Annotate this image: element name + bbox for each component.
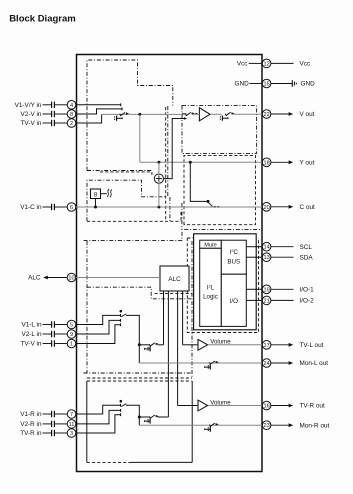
svg-text:5: 5 — [70, 323, 73, 329]
wire ALC sense R — [167, 291, 169, 417]
node C filter tap — [94, 206, 97, 209]
svg-text:TV-R in: TV-R in — [20, 430, 42, 437]
wire pin1 TV-L staircase — [76, 325, 121, 344]
svg-text:V2-V in: V2-V in — [21, 111, 42, 118]
wire I/O to pin 21 — [246, 299, 262, 301]
Y out line/label — [271, 160, 315, 167]
capacitor TV-R in — [43, 430, 68, 436]
Y bus wire to pin 18 — [140, 161, 262, 163]
svg-text:21: 21 — [263, 298, 269, 304]
svg-text:17: 17 — [263, 343, 269, 349]
svg-text:Vcc: Vcc — [300, 61, 311, 68]
volume amp R — [198, 400, 208, 411]
wire V amp to output switch — [210, 113, 222, 115]
wire I2C BUS to pin 14 SCL — [246, 246, 262, 248]
pin 8 V2-V in — [67, 110, 76, 119]
pin 5 V1-L in — [67, 320, 76, 329]
node R selector common — [120, 400, 123, 403]
svg-text:13: 13 — [263, 255, 269, 261]
audio-R section dashed bottom piece — [87, 461, 131, 463]
I2C BUS block — [221, 240, 246, 274]
wire ALC to R volume amp — [178, 405, 198, 407]
audio-R section bottom rail — [131, 461, 192, 463]
node video bus tap — [138, 113, 141, 116]
GND line, ground symbol, label — [271, 80, 315, 88]
Mon-L out line/label — [271, 360, 328, 367]
svg-text:6: 6 — [70, 205, 73, 211]
wire pin 10 to ALC block — [76, 277, 160, 279]
capacitor V1-V/Y in — [43, 102, 68, 108]
switch V amp input — [185, 112, 197, 116]
audio-R section dashed top edge — [87, 380, 192, 382]
volume amp L — [198, 339, 208, 350]
contact tick TV-R — [120, 413, 122, 416]
node L volume tap — [138, 343, 141, 346]
wire ALC sense L — [163, 291, 165, 345]
svg-text:I/O-1: I/O-1 — [300, 287, 315, 294]
svg-text:ALC: ALC — [168, 276, 181, 283]
svg-text:Block Diagram: Block Diagram — [9, 13, 76, 24]
pin 17 TV-L out — [262, 341, 271, 350]
clamp R — [145, 418, 151, 423]
clamp L — [145, 346, 151, 351]
capacitor V2-V in — [43, 111, 68, 117]
Vcc line/label — [271, 61, 311, 68]
capacitor TV-V in — [43, 120, 68, 126]
svg-text:Mute: Mute — [204, 243, 216, 249]
wire ALC feed L amp — [182, 291, 184, 345]
svg-text:V1-V/Y in: V1-V/Y in — [15, 102, 42, 109]
wire contact at V amp switch — [182, 113, 186, 115]
svg-text:11: 11 — [69, 422, 75, 428]
Mon-R out line/label — [271, 422, 330, 429]
svg-text:4: 4 — [70, 103, 73, 109]
audio-L dashed top edge piece — [155, 293, 193, 295]
wire video tap down to Y bus — [139, 114, 141, 162]
Vcc supply line inside — [237, 61, 262, 68]
wire L switch to ALC sense — [158, 344, 164, 346]
wire Y tap to Y/C switch — [190, 162, 208, 201]
I/O-1 line/label — [271, 287, 314, 294]
clamp at V out switch — [220, 116, 228, 121]
op-amp V out buffer — [199, 108, 210, 121]
capacitor V2-L in — [43, 331, 68, 337]
contact tick TV-L — [120, 323, 122, 326]
logic block dashed box top stub — [187, 237, 193, 239]
svg-text:V1-R in: V1-R in — [20, 411, 42, 418]
svg-text:SCL: SCL — [300, 244, 313, 251]
svg-text:15: 15 — [263, 82, 269, 88]
svg-text:I2L: I2L — [207, 284, 215, 292]
svg-text:9: 9 — [70, 332, 73, 338]
wire pin5 V1-L staircase — [76, 315, 121, 324]
node Y tap to adder — [157, 161, 160, 164]
switch L line out — [149, 343, 158, 347]
I/O block — [221, 274, 246, 326]
IC outline box — [77, 55, 263, 472]
svg-text:TV-L out: TV-L out — [300, 342, 324, 349]
ALC block — [160, 266, 189, 291]
wire pin3 TV-R staircase — [76, 415, 121, 433]
capacitor V1-C in — [43, 204, 68, 210]
svg-text:I2C: I2C — [230, 248, 239, 256]
svg-text:20: 20 — [263, 205, 269, 211]
chroma section dashed bottom — [87, 220, 181, 222]
contact tick V2-L — [120, 319, 122, 322]
pin 21 I/O-2 — [262, 296, 271, 305]
video input section box right edge — [167, 106, 169, 197]
I/O-2 line/label — [271, 298, 314, 305]
I2L Logic block — [200, 248, 222, 326]
logic block dashed box — [187, 238, 258, 333]
svg-text:12: 12 — [263, 61, 269, 67]
svg-text:8: 8 — [70, 112, 73, 118]
video bus wire to amp — [102, 113, 183, 115]
SDA line/label — [271, 254, 313, 261]
audio-L section dashed bottom edge — [87, 377, 192, 379]
wire I2C BUS to pin 13 SDA — [246, 256, 262, 258]
contact tick V2-R — [120, 409, 122, 412]
svg-text:Y out: Y out — [300, 160, 315, 167]
pin 19 I/O-1 — [262, 285, 271, 294]
capacitor V2-R in — [43, 421, 68, 427]
switch Mon-L out — [209, 361, 218, 365]
chroma section box (dash-dot) — [87, 180, 166, 221]
audio L selector switch arm — [121, 314, 126, 317]
chroma box inner dash-dot edge — [169, 197, 171, 221]
contact tick V1-L — [120, 314, 122, 317]
wire pin9 V2-L staircase — [76, 320, 121, 334]
node Y tap to Y/C switch — [189, 161, 192, 164]
pin 23 Mon-R out — [262, 421, 271, 430]
wire L to rec switch — [139, 344, 150, 346]
svg-text:C out: C out — [300, 204, 315, 211]
pin 13 SDA — [262, 253, 271, 262]
wire L volume amp to pin 17 — [208, 344, 262, 346]
TV-L out line/label — [271, 342, 324, 349]
pin 9 V2-L in — [67, 330, 76, 339]
wire ALC to L volume amp — [183, 344, 198, 346]
wire switch to V amp — [192, 113, 200, 115]
svg-text:10: 10 — [68, 276, 74, 282]
switch Y/C mix — [208, 202, 219, 207]
GND line inside — [234, 81, 262, 88]
switch R line out — [149, 415, 158, 419]
svg-text:14: 14 — [263, 245, 269, 251]
svg-text:2: 2 — [70, 121, 73, 127]
V out line/label — [271, 111, 315, 118]
wire pin11 V2-R staircase — [76, 410, 121, 424]
contact tick V1-V/Y — [120, 103, 122, 106]
adder (Y+C summing) — [154, 174, 163, 183]
pin 12 Vcc — [262, 59, 271, 68]
pin 16 TV-R out — [262, 401, 271, 410]
pin 24 Mon-L out — [262, 359, 271, 368]
svg-text:7: 7 — [70, 412, 73, 418]
svg-text:GND: GND — [234, 81, 249, 88]
svg-text:GND: GND — [301, 81, 316, 88]
svg-text:SDA: SDA — [300, 254, 314, 261]
svg-text:Logic: Logic — [203, 294, 218, 301]
pin 6 V1-C in — [67, 203, 76, 212]
svg-text:TV-R out: TV-R out — [300, 403, 325, 410]
dash-dot edge left of Y/C box — [181, 203, 183, 230]
Y/C output section box (dashed) — [184, 155, 256, 224]
svg-text:22: 22 — [263, 112, 269, 118]
inner dashed edge beside video box — [165, 107, 167, 221]
svg-text:18: 18 — [263, 160, 269, 166]
wire R to rec switch — [139, 416, 150, 418]
wire filter box to C bus — [95, 199, 97, 208]
long dash-dot separator (stepped, top of control section) — [84, 230, 263, 241]
wire R switch to ALC sense — [158, 416, 169, 418]
svg-text:V out: V out — [300, 111, 315, 118]
wire pin8 V2-V input staircase — [76, 109, 122, 114]
wire filter box to trap symbol — [101, 193, 107, 195]
pin 11 V2-R in — [67, 420, 76, 429]
wire R selector output down — [126, 405, 139, 425]
pin 3 TV-R in — [67, 429, 76, 438]
pin 14 SCL — [262, 242, 271, 251]
node L selector common — [120, 310, 123, 313]
wire pin2 TV-V input staircase — [76, 114, 102, 123]
svg-text:I/O-2: I/O-2 — [300, 298, 315, 305]
svg-text:19: 19 — [263, 287, 269, 293]
C out line/label — [271, 204, 315, 211]
wire R volume amp to pin 16 — [208, 405, 262, 407]
wire adder output up to V amp switch — [164, 119, 185, 179]
V-out amplifier section box (dash-dot) — [182, 106, 257, 154]
wire pin7 V1-R staircase — [76, 405, 121, 414]
filter box "8" — [91, 189, 101, 199]
svg-text:24: 24 — [263, 361, 269, 367]
trap filter symbol — [107, 189, 112, 197]
svg-text:16: 16 — [263, 404, 269, 410]
C bus wire pin 6 to pin 20 — [76, 206, 262, 208]
pin 10 ALC — [67, 273, 76, 282]
wire C into adder — [158, 183, 160, 207]
contact tick V1-R — [120, 404, 122, 407]
pin 22 V out — [262, 110, 271, 119]
svg-text:23: 23 — [263, 423, 269, 429]
control section left dash-dot edge — [86, 241, 88, 373]
video clamp — [115, 116, 123, 121]
svg-text:3: 3 — [70, 431, 73, 437]
node R volume tap — [138, 416, 141, 419]
dashed companion of video box bottom — [100, 171, 152, 173]
wire Y into adder — [158, 162, 160, 174]
wire Mon-R to pin 23 — [139, 424, 262, 426]
wire L selector output down — [126, 315, 139, 363]
dashed stub at video box bottom corner — [151, 172, 153, 177]
audio-R section right rail — [191, 381, 193, 462]
svg-text:TV-V in: TV-V in — [21, 120, 42, 127]
pin 18 Y out — [262, 158, 271, 167]
Mute block — [200, 240, 222, 248]
svg-text:BUS: BUS — [227, 258, 240, 265]
long dash-dot separator (bottom of control section) — [84, 372, 193, 374]
wire to pin 22 V out — [232, 113, 263, 115]
node C tap to adder — [157, 206, 160, 209]
capacitor V1-L in — [43, 321, 68, 327]
capacitor TV-L in — [43, 340, 68, 346]
audio R selector switch arm — [121, 404, 126, 407]
svg-text:V2-R in: V2-R in — [20, 421, 42, 428]
svg-text:TV-V in: TV-V in — [21, 341, 42, 348]
svg-text:V1-C in: V1-C in — [20, 204, 42, 211]
arrow adder feed contact — [184, 117, 187, 120]
svg-text:Vcc: Vcc — [237, 61, 248, 68]
switch Mon-R out — [209, 423, 218, 427]
svg-text:V2-L in: V2-L in — [21, 331, 41, 338]
wire pin4 V1-V/Y input — [76, 104, 121, 106]
svg-text:Mon-L out: Mon-L out — [300, 360, 329, 367]
video input selector switch — [120, 112, 129, 116]
ALC output line with left arrow — [28, 275, 67, 282]
contact tick V2-V — [121, 108, 123, 111]
video input section box bottom edge — [87, 170, 152, 172]
node Y/C switch contact — [207, 200, 210, 203]
audio-R section left rail — [86, 381, 88, 462]
wire Mon-L to pin 24 — [139, 362, 262, 364]
wire ALC feed R amp — [177, 291, 179, 406]
pin 20 C out — [262, 203, 271, 212]
video input section box (dash-dot) top — [87, 60, 173, 171]
pin 1 TV-L in — [67, 339, 76, 348]
svg-text:I/O: I/O — [230, 298, 238, 305]
capacitor V1-R in — [43, 411, 68, 417]
clamp Mon-L — [205, 364, 211, 369]
clamp Mon-R — [205, 427, 211, 432]
logic block outline — [194, 234, 257, 330]
switch V out — [225, 112, 234, 116]
pin 4 V1-V/Y in — [67, 101, 76, 110]
svg-text:1: 1 — [70, 342, 73, 348]
svg-text:ALC: ALC — [28, 275, 41, 282]
TV-R out line/label — [271, 403, 325, 410]
svg-text:V1-L in: V1-L in — [21, 322, 41, 329]
chroma section dashed corner — [180, 212, 182, 221]
pin 2 TV-V in — [67, 119, 76, 128]
wire I/O to pin 19 — [246, 288, 262, 290]
control section right dash-dot edge — [191, 241, 193, 378]
pin 15 GND — [262, 79, 271, 88]
svg-text:Mon-R out: Mon-R out — [300, 422, 330, 429]
pin 7 V1-R in — [67, 410, 76, 419]
SCL line/label — [271, 244, 312, 251]
audio-L section dash-dot top edge (stepped) — [87, 287, 192, 299]
